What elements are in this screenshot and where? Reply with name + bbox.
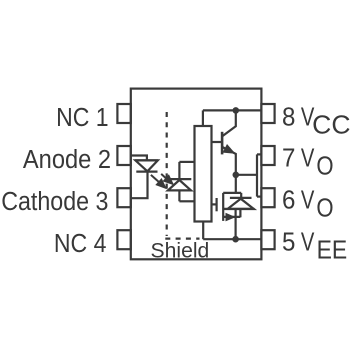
wire Q2 source line xyxy=(223,208,254,210)
node VCC junction xyxy=(233,107,240,114)
wire VEE rail xyxy=(203,238,261,240)
wire cathode lead xyxy=(131,172,148,199)
shield dashed line horizontal xyxy=(165,238,199,240)
transistor Q1 emitter arrow xyxy=(223,144,236,154)
wire VO rail xyxy=(256,154,258,196)
svg-text:7: 7 xyxy=(282,144,295,172)
wire amp bottom feed xyxy=(202,222,204,240)
transistor Q2 gate bar xyxy=(216,198,218,211)
wire VO stub pin 7 xyxy=(257,153,261,155)
pin 1 box xyxy=(117,104,130,123)
shield dashed line vertical xyxy=(166,112,168,236)
wire gate lead xyxy=(212,203,217,205)
svg-text:V: V xyxy=(301,228,315,256)
wire emitter to output xyxy=(236,174,257,176)
photodiode D2 xyxy=(168,178,191,180)
wire Q1 collector xyxy=(222,110,236,136)
op-amp U1 driver box xyxy=(195,126,212,222)
transistor Q2 channel xyxy=(222,193,224,221)
svg-text:NC 1: NC 1 xyxy=(56,104,109,132)
wire photodiode top bracket xyxy=(179,161,194,163)
pin 4 box xyxy=(117,230,130,249)
svg-text:Anode 2: Anode 2 xyxy=(23,146,111,174)
wire drain feed xyxy=(235,175,237,193)
transistor Q2 body arrow xyxy=(226,213,236,222)
wire photodiode anode xyxy=(178,190,180,201)
light arrow 1 shaft xyxy=(161,174,167,179)
svg-text:V: V xyxy=(301,144,315,172)
wire amp top feed xyxy=(202,110,204,126)
wire base lead Q1 xyxy=(212,141,223,143)
svg-text:V: V xyxy=(301,186,315,214)
pin 8 box xyxy=(261,104,274,123)
svg-text:8: 8 xyxy=(282,104,295,132)
wire photodiode bottom bracket xyxy=(179,200,194,202)
wire diode anode tick xyxy=(239,209,241,217)
wire Q2 body lead xyxy=(223,216,240,218)
svg-text:Cathode 3: Cathode 3 xyxy=(1,188,108,216)
pin 2 box xyxy=(117,146,130,165)
wire Q1 emitter xyxy=(222,147,236,175)
pin 7 box xyxy=(261,146,274,165)
wire photodiode cathode xyxy=(178,162,180,179)
svg-text:5: 5 xyxy=(282,228,295,256)
node output junction xyxy=(233,172,240,179)
IC package U1 body xyxy=(131,89,262,260)
wire anode lead xyxy=(131,156,147,161)
svg-text:O: O xyxy=(316,152,333,180)
pin 3 box xyxy=(117,188,130,207)
svg-text:Shield: Shield xyxy=(151,239,210,262)
svg-text:O: O xyxy=(316,194,333,222)
wire diode cathode feed xyxy=(240,193,242,198)
svg-text:EE: EE xyxy=(317,236,348,264)
svg-text:6: 6 xyxy=(282,186,295,214)
light arrow 1 xyxy=(163,174,175,185)
wire VO stub pin 6 xyxy=(257,196,261,198)
LED D1 xyxy=(135,159,158,161)
wire Q2 drain bar xyxy=(223,192,241,194)
svg-text:CC: CC xyxy=(312,112,350,140)
wire source drop to VEE xyxy=(235,209,237,239)
light arrow 2 shaft xyxy=(151,175,159,183)
pin 6 box xyxy=(261,188,274,207)
transistor Q1 base bar xyxy=(221,132,224,155)
diode D3 body diode xyxy=(230,197,252,199)
pin 5 box xyxy=(261,230,274,249)
node VEE junction xyxy=(232,236,239,243)
wire VCC rail xyxy=(203,109,262,111)
light arrow 2 xyxy=(155,178,167,189)
svg-text:NC 4: NC 4 xyxy=(54,230,107,258)
